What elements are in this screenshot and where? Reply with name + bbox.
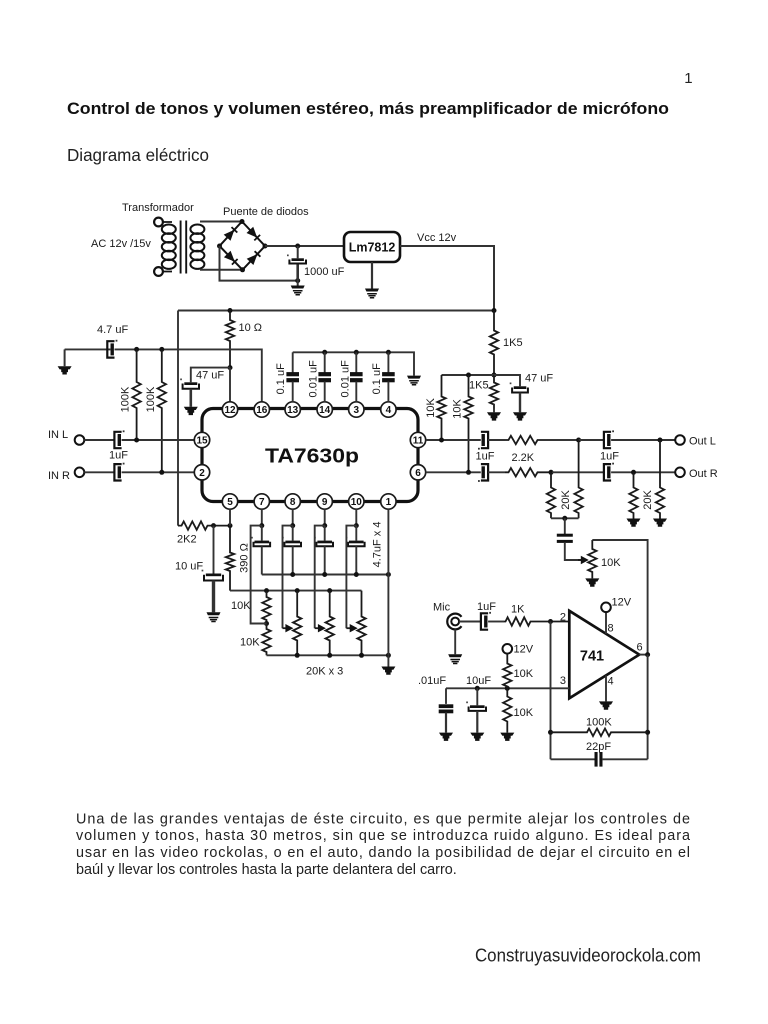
wire 4.7uF top lead 2: [292, 526, 294, 541]
diode D3: [224, 251, 238, 265]
svg-text:Construyasuvideorockola.com: Construyasuvideorockola.com: [475, 946, 701, 966]
junction out L feedback: [576, 438, 581, 443]
resistor 390 ohm: [226, 526, 234, 591]
junction lower bus pin1: [386, 653, 391, 658]
resistor div 10K upper: [503, 654, 511, 689]
transformer T1: [154, 218, 204, 276]
wire mic gnd stub: [454, 630, 456, 655]
junction cap negative: [295, 278, 300, 283]
pin 11 right: [410, 432, 425, 447]
junction pin5 node: [228, 523, 233, 528]
junction 1000uF top: [295, 244, 300, 249]
capacitor 4.7uF 3: [314, 537, 333, 546]
wire mic to cap: [459, 621, 481, 623]
svg-text:47 uF: 47 uF: [196, 370, 224, 382]
pin 6 right: [410, 465, 425, 480]
svg-text:Puente de diodos: Puente de diodos: [223, 206, 309, 218]
svg-text:1K: 1K: [511, 604, 525, 616]
capacitor 1uF out L: [604, 430, 614, 448]
junction out L 20K: [658, 438, 663, 443]
junction lower bus pot3: [359, 653, 364, 658]
wire pot top to opamp out: [592, 540, 647, 655]
terminal Out R: [675, 468, 685, 478]
capacitor 10 uF pin5: [202, 570, 223, 581]
capacitor 0.1 uF pin: [382, 372, 395, 382]
junction top bus cap 0.1 uF 3: [386, 350, 391, 355]
pin 14 top: [317, 402, 332, 417]
svg-text:Vcc 12v: Vcc 12v: [417, 232, 457, 244]
wire cap 0 bottom lead: [292, 382, 294, 402]
wire bridge minus to ground rail: [220, 246, 298, 281]
svg-text:usar en las video rockolas, o: usar en las video rockolas, o en el auto…: [76, 845, 690, 861]
wire IN L to pin15: [122, 439, 195, 441]
junction pin12 node: [228, 365, 233, 370]
junction mid bus pin1: [386, 572, 391, 577]
svg-text:1uF: 1uF: [477, 601, 496, 613]
terminal Out L: [675, 435, 685, 445]
wire to Out R: [611, 471, 675, 473]
wire 2.2K to cap out L: [579, 439, 604, 441]
resistor 10K a: [437, 375, 445, 440]
wire mid bus 4.7uF: [262, 574, 389, 576]
wire top supply bus: [178, 310, 494, 312]
wire 10uF to ground: [212, 581, 215, 613]
junction lower bus pot2: [327, 653, 332, 658]
wire Vcc 12v: [400, 246, 494, 311]
svg-text:10 uF: 10 uF: [175, 561, 203, 573]
junction top bus cap 0.01 uF 1: [322, 350, 327, 355]
resistor 20K c: [629, 472, 637, 518]
wire 22pF right: [602, 758, 648, 760]
wire cap 2 top lead: [355, 352, 357, 372]
junction out R 20K a: [549, 470, 554, 475]
svg-text:Out L: Out L: [689, 436, 716, 448]
resistor 20K a: [547, 472, 555, 518]
svg-text:1000 uF: 1000 uF: [304, 266, 345, 278]
wire cap to 1K: [488, 621, 504, 623]
junction IN R bias: [159, 470, 164, 475]
wire opamp pin4 gnd: [605, 675, 607, 701]
capacitor .01uF: [439, 704, 454, 713]
svg-text:12V: 12V: [514, 644, 534, 656]
junction divider: [505, 686, 510, 691]
svg-text:10K: 10K: [425, 398, 437, 418]
svg-text:volumen y tonos, hasta 30 metr: volumen y tonos, hasta 30 metros, sin qu…: [76, 828, 690, 844]
pin 10 bottom: [349, 494, 364, 509]
svg-text:AC 12v /15v: AC 12v /15v: [91, 238, 151, 250]
wire to coupling cap: [564, 518, 566, 534]
svg-text:10K: 10K: [231, 600, 251, 612]
svg-text:13: 13: [287, 405, 299, 416]
pin 15 left: [194, 432, 209, 447]
svg-text:Control de tonos y volumen est: Control de tonos y volumen estéreo, más …: [67, 99, 669, 118]
arrow wiper pot3: [346, 624, 357, 632]
resistor 1K5 upper: [490, 311, 498, 376]
junction bus pot1 top: [295, 588, 300, 593]
wire pin7 wiper branch: [251, 526, 267, 624]
resistor tone 10K upper: [262, 591, 270, 624]
wire cap 2 bottom lead: [355, 382, 357, 402]
junction inverting node: [548, 619, 553, 624]
resistor 20K b: [574, 440, 582, 518]
resistor 1K5 lower: [490, 375, 498, 409]
capacitor 1uF mic: [481, 612, 491, 630]
ground tone network: [381, 667, 395, 675]
ground pot 10K: [585, 578, 599, 586]
capacitor 1uF in L: [114, 430, 124, 448]
wire top cap bus: [293, 352, 414, 375]
wire pin1 drop: [387, 509, 389, 655]
wire secondary top to bridge: [200, 221, 242, 223]
pin 13 top: [285, 402, 300, 417]
svg-text:0.01 uF: 0.01 uF: [307, 360, 319, 398]
wire 1000uF bottom lead: [296, 265, 299, 281]
diode D1: [224, 227, 238, 241]
capacitor 22pF: [595, 752, 603, 767]
pin 1 bottom: [381, 494, 396, 509]
junction top bus at 10 ohm: [228, 308, 233, 313]
svg-text:100K: 100K: [586, 717, 612, 729]
capacitor 10uF mic: [466, 702, 486, 711]
junction pin bottom 2: [290, 523, 295, 528]
wire 4.7uF top lead 4: [355, 526, 357, 541]
capacitor 4.7uF 2: [282, 537, 301, 546]
capacitor 1uF mid R: [478, 464, 488, 482]
svg-text:8: 8: [290, 497, 296, 508]
wire pin1 gnd stub: [387, 655, 389, 666]
wire 4.7uF bottom lead 1: [261, 546, 263, 574]
arrow wiper pot2: [315, 624, 326, 632]
svg-text:0.1 uF: 0.1 uF: [371, 363, 383, 394]
IC U1 TA7630p body: [202, 409, 418, 502]
svg-text:10K: 10K: [452, 399, 464, 419]
junction top bus cap 0.01 uF 2: [354, 350, 359, 355]
junction pin bottom 1: [259, 523, 264, 528]
resistor pot 10K: [588, 540, 596, 578]
pin 2 left: [194, 465, 209, 480]
svg-text:baúl y llevar los controles ha: baúl y llevar los controles hasta la par…: [76, 862, 457, 878]
svg-text:1uF: 1uF: [109, 450, 128, 462]
svg-text:4.7uF x 4: 4.7uF x 4: [372, 522, 384, 568]
ground supply: [291, 286, 305, 295]
wire pin5 lead: [229, 509, 231, 525]
pin 7 bottom: [254, 494, 269, 509]
svg-text:20K: 20K: [560, 490, 572, 510]
wire inverting drop: [550, 622, 552, 760]
capacitor 4.7 uF: [107, 340, 117, 358]
wire pin bottom lead 4: [355, 509, 357, 525]
resistor tone pot 3: [357, 591, 365, 656]
svg-text:741: 741: [580, 649, 604, 665]
wire 4.7uF bottom lead 3: [324, 546, 326, 574]
svg-text:5: 5: [227, 497, 233, 508]
wire pin6 to cap: [426, 471, 481, 473]
wire IN R: [84, 471, 114, 473]
svg-text:20K: 20K: [642, 490, 654, 510]
wire left supply drop: [177, 311, 179, 526]
svg-text:10K: 10K: [514, 707, 534, 719]
svg-text:2: 2: [560, 612, 566, 624]
wire 22pF left: [551, 758, 596, 760]
junction 10K b bottom: [466, 470, 471, 475]
capacitor 0.01 uF pin: [318, 372, 331, 382]
svg-text:14: 14: [319, 405, 331, 416]
capacitor 1uF in R: [114, 463, 124, 481]
pin 8 bottom: [285, 494, 300, 509]
wire tone bus lower: [267, 654, 389, 656]
ground 47uF right: [513, 412, 527, 420]
diode D4: [247, 251, 261, 265]
junction bridge right: [263, 244, 268, 249]
pin 3 top: [349, 402, 364, 417]
svg-text:15: 15: [196, 436, 208, 447]
wire 47uF branch: [191, 368, 230, 383]
svg-text:7: 7: [259, 497, 265, 508]
junction pin bottom 3: [322, 523, 327, 528]
svg-text:8: 8: [608, 623, 614, 635]
svg-text:12V: 12V: [612, 597, 632, 609]
resistor tone pot 2: [326, 591, 334, 656]
ground top cap bus: [407, 376, 421, 385]
junction 10uF node: [211, 523, 216, 528]
svg-text:Out R: Out R: [689, 468, 718, 480]
junction feedback out: [645, 730, 650, 735]
arrow pot wiper: [578, 556, 589, 564]
junction lower bus pot1: [295, 653, 300, 658]
resistor 1K: [504, 617, 569, 625]
capacitor 1uF out R: [604, 463, 614, 481]
ground 20K d: [653, 519, 667, 527]
resistor div 10K lower: [503, 688, 511, 732]
svg-text:10: 10: [351, 497, 363, 508]
wire non-inverting line: [446, 687, 569, 689]
wire IN L: [84, 439, 114, 441]
svg-text:TA7630p: TA7630p: [265, 445, 359, 468]
svg-text:Mic: Mic: [433, 602, 451, 614]
terminal IN L: [75, 435, 85, 445]
wire regulator ground: [371, 262, 373, 289]
svg-text:22pF: 22pF: [586, 741, 611, 753]
junction pin bottom 4: [354, 523, 359, 528]
wire cap 3 bottom lead: [387, 382, 389, 402]
junction 20K bottoms: [562, 516, 567, 521]
wire 4.7uF top lead 1: [261, 526, 263, 541]
wire .01uF gnd: [445, 713, 447, 733]
junction opamp output: [645, 652, 650, 657]
junction 100K left top: [134, 347, 139, 352]
pin 16 top: [254, 402, 269, 417]
svg-text:100K: 100K: [145, 386, 157, 412]
wire cap 0 top lead: [292, 352, 294, 372]
svg-text:4.7 uF: 4.7 uF: [97, 324, 128, 336]
wire opamp V+ lead: [605, 612, 607, 634]
svg-text:1K5: 1K5: [503, 337, 523, 349]
wire 1K5 node left: [442, 374, 495, 376]
svg-text:2K2: 2K2: [177, 534, 197, 546]
wire 10uF mic gnd: [476, 711, 478, 733]
capacitor coupling pot: [557, 534, 573, 543]
ground regulator: [365, 289, 379, 298]
svg-text:6: 6: [415, 468, 421, 479]
wire pin bottom lead 3: [324, 509, 326, 525]
op-amp U2 741: [569, 611, 639, 699]
svg-text:Una de las grandes ventajas de: Una de las grandes ventajas de éste circ…: [76, 811, 690, 827]
capacitor 4.7uF 4: [346, 537, 365, 546]
junction 1K5 node: [492, 373, 497, 378]
svg-text:1uF: 1uF: [600, 451, 619, 463]
wire 1000uF top lead: [297, 246, 299, 258]
wire cap to 2.2K L: [488, 439, 505, 441]
wire 10uF lead: [213, 526, 215, 574]
ground 1K5: [487, 412, 501, 420]
ground div 10K: [500, 733, 514, 741]
wire ground stub: [297, 281, 299, 286]
wire bias left: [65, 348, 111, 350]
junction bus pot2 top: [327, 588, 332, 593]
wire 47uF to ground: [190, 389, 193, 407]
ground mic: [448, 654, 462, 663]
wire to Out L: [611, 439, 675, 441]
junction out R 20K c: [631, 470, 636, 475]
resistor 100K left: [132, 349, 140, 440]
resistor 2.2K R: [505, 468, 552, 476]
wire output feedback drop: [647, 655, 649, 760]
wire pin bottom lead 1: [261, 509, 263, 525]
resistor 2K2: [178, 521, 230, 529]
resistor tone 10K lower: [262, 624, 270, 656]
wire bias right: [115, 349, 262, 402]
ground input bias: [58, 366, 72, 374]
svg-text:9: 9: [322, 497, 328, 508]
wire 47uF right branch: [494, 375, 520, 386]
wire bias ground stub: [64, 349, 66, 366]
capacitor 47 uF left: [180, 379, 199, 389]
svg-text:47 uF: 47 uF: [525, 373, 553, 385]
pin 9 bottom: [317, 494, 332, 509]
junction 10uF mic: [475, 686, 480, 691]
resistor 100K right: [158, 349, 166, 472]
ground opamp pin4: [599, 701, 613, 709]
wire cap to wiper: [565, 542, 583, 560]
capacitor 1uF mid L: [478, 432, 488, 450]
wire bridge plus to regulator: [265, 245, 344, 247]
svg-text:Diagrama eléctrico: Diagrama eléctrico: [67, 145, 209, 165]
wire pin12 lead: [229, 368, 231, 402]
pin 4 top: [381, 402, 396, 417]
capacitor 47 uF right: [510, 383, 528, 393]
pin 5 bottom: [222, 494, 237, 509]
svg-text:1uF: 1uF: [476, 451, 495, 463]
resistor 10 ohm: [226, 311, 234, 368]
svg-text:1: 1: [684, 70, 692, 87]
junction 100K right top: [159, 347, 164, 352]
svg-text:390 Ω: 390 Ω: [239, 543, 251, 573]
wire cap to 2.2K R: [488, 471, 505, 473]
wire 20K bottoms: [551, 517, 579, 519]
svg-text:16: 16: [256, 405, 268, 416]
wire pin8 wiper branch: [283, 526, 293, 629]
wire 4.7uF bottom lead 4: [355, 546, 357, 574]
wire 4.7uF bottom lead 2: [292, 546, 294, 574]
svg-text:12: 12: [224, 405, 236, 416]
bridge rectifier diamond: [220, 222, 266, 270]
capacitor 4.7uF 1: [251, 537, 270, 546]
junction IN L bias: [134, 438, 139, 443]
resistor 100K feedback: [551, 729, 648, 737]
wire .01uF lead: [445, 688, 447, 704]
junction tone 10K mid: [264, 621, 269, 626]
junction mid bus 4: [354, 572, 359, 577]
wire secondary bottom to bridge: [200, 269, 243, 271]
resistor 10K b: [464, 375, 472, 472]
mic jack: [447, 614, 461, 630]
junction bridge left: [217, 244, 222, 249]
svg-text:20K x 3: 20K x 3: [306, 666, 343, 678]
wire pin11 to cap: [426, 439, 481, 441]
resistor 2.2K L: [505, 436, 579, 444]
svg-text:11: 11: [413, 436, 424, 447]
svg-text:3: 3: [354, 405, 360, 416]
junction 10K a bottom: [439, 438, 444, 443]
wire cap 3 top lead: [387, 352, 389, 372]
svg-text:3: 3: [560, 675, 566, 687]
terminal 12V opamp: [601, 603, 611, 613]
resistor tone pot 1: [293, 591, 301, 656]
wire tone bus upper: [230, 590, 362, 592]
arrow wiper pot1: [283, 624, 294, 632]
svg-text:0.01 uF: 0.01 uF: [340, 360, 352, 398]
wire 47uF right gnd: [519, 393, 521, 413]
regulator Lm7812: [344, 232, 400, 262]
terminal 12V divider: [503, 644, 513, 654]
diode D2: [247, 227, 261, 241]
wire 10uF mic lead: [476, 688, 478, 705]
svg-text:2.2K: 2.2K: [512, 452, 535, 464]
svg-text:1K5: 1K5: [469, 380, 489, 392]
svg-text:4: 4: [386, 405, 392, 416]
junction bus 10K top: [264, 588, 269, 593]
junction bridge top: [240, 219, 245, 224]
wire pin bottom lead 2: [292, 509, 294, 525]
ground 10uF: [207, 612, 221, 621]
ground 47uF left: [184, 407, 198, 415]
wire 4.7uF top lead 3: [324, 526, 326, 541]
junction top bus at Vcc: [492, 308, 497, 313]
wire 2.2K to cap out R: [552, 471, 604, 473]
svg-text:100K: 100K: [120, 386, 132, 412]
svg-text:.01uF: .01uF: [418, 675, 446, 687]
wire opamp output: [639, 654, 647, 656]
svg-text:0.1 uF: 0.1 uF: [275, 363, 287, 394]
svg-text:10K: 10K: [514, 668, 534, 680]
capacitor 1000 uF: [287, 255, 306, 264]
resistor 20K d: [656, 440, 664, 519]
svg-text:Transformador: Transformador: [122, 202, 194, 214]
junction mid bus 3: [322, 572, 327, 577]
svg-text:IN R: IN R: [48, 470, 70, 482]
ground .01uF: [439, 733, 453, 741]
wire cap 1 top lead: [324, 352, 326, 372]
junction bridge bottom: [240, 267, 245, 272]
svg-text:4: 4: [608, 676, 614, 688]
svg-text:10K: 10K: [240, 637, 260, 649]
svg-text:10uF: 10uF: [466, 675, 491, 687]
junction feedback in: [548, 730, 553, 735]
ground 20K c: [627, 519, 641, 527]
junction 10K right top: [466, 373, 471, 378]
wire cap 1 bottom lead: [324, 382, 326, 402]
junction mid bus 2: [290, 572, 295, 577]
